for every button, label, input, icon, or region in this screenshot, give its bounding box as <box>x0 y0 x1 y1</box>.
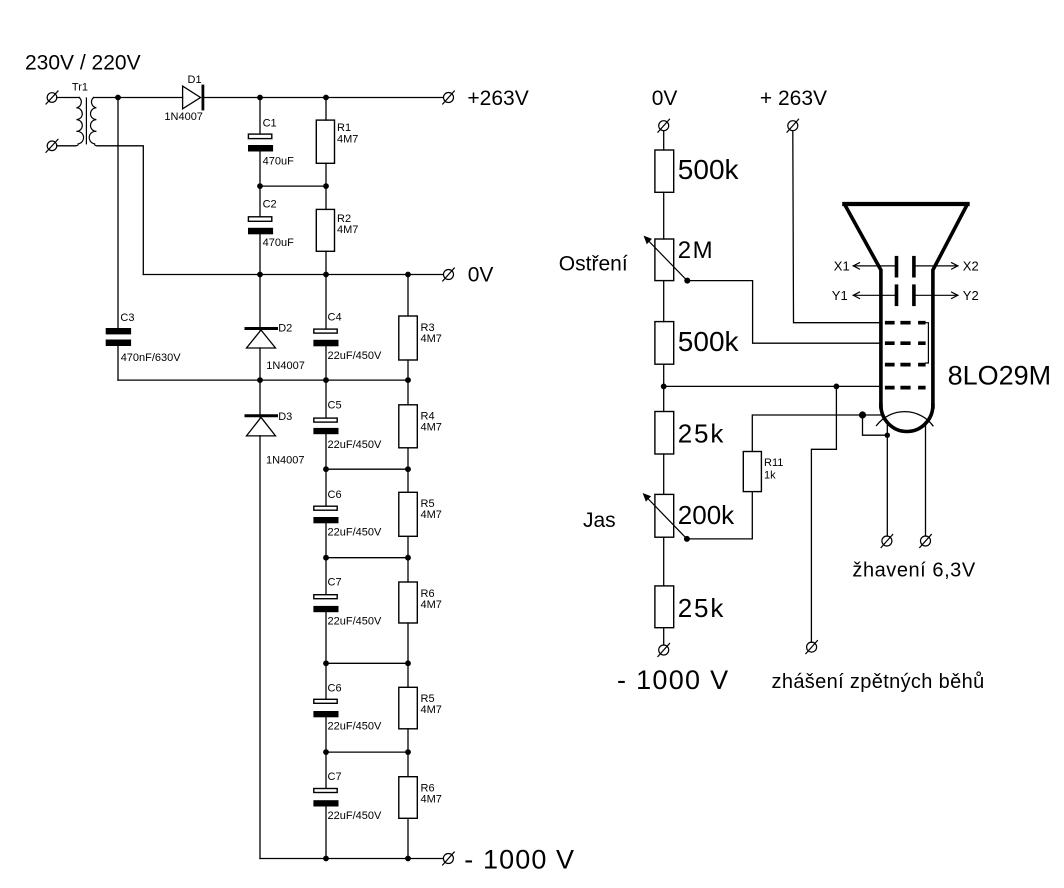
capacitor C2 470uF <box>248 198 294 274</box>
svg-text:22uF/450V: 22uF/450V <box>328 439 382 451</box>
wire: anode bracket rows 1-3 <box>926 323 929 363</box>
diode D3 1N4007 <box>246 380 305 466</box>
wire: D3 to -1000V rail <box>259 436 261 859</box>
svg-text:470nF/630V: 470nF/630V <box>121 352 182 364</box>
node: R5b/R6b junction <box>405 749 411 755</box>
wire: heater left leg <box>886 422 888 536</box>
CRT grid row 2 (focus) <box>885 341 926 345</box>
svg-text:4M7: 4M7 <box>421 509 442 521</box>
svg-text:22uF/450V: 22uF/450V <box>328 616 382 628</box>
wire: C1/C2 to R1/R2 link <box>260 185 326 187</box>
svg-text:0V: 0V <box>468 263 494 286</box>
node: D2/D3 junction <box>257 377 263 383</box>
resistor 25k (upper) <box>655 412 725 495</box>
node: C1 top <box>257 95 263 101</box>
svg-text:X2: X2 <box>963 259 979 274</box>
resistor R6 (second) 4M7 <box>399 752 442 858</box>
svg-text:25k: 25k <box>678 593 725 623</box>
resistor R1 4M7 <box>316 98 358 210</box>
node: cathode junction <box>859 411 866 418</box>
resistor 25k (lower) <box>655 586 725 645</box>
resistor 500k (second) <box>655 322 740 412</box>
svg-text:22uF/450V: 22uF/450V <box>328 350 382 362</box>
terminal: -1000V left <box>443 852 455 865</box>
node: R2 bottom on 0V <box>323 272 329 278</box>
terminal: 0V right <box>658 119 670 132</box>
wire: blanking tap to terminal <box>811 386 836 642</box>
svg-text:0V: 0V <box>652 87 678 110</box>
svg-text:22uF/450V: 22uF/450V <box>328 721 382 733</box>
svg-text:- 1000 V: - 1000 V <box>617 665 729 695</box>
svg-text:Y2: Y2 <box>963 288 979 303</box>
svg-text:200k: 200k <box>678 500 735 530</box>
node: C6/C7 junction <box>323 555 329 561</box>
svg-text:C1: C1 <box>263 118 277 130</box>
terminal: mains top <box>46 91 58 104</box>
svg-text:R1: R1 <box>337 122 351 134</box>
capacitor C7 22uF/450V <box>313 558 382 664</box>
resistor R11 1k <box>743 452 783 492</box>
svg-text:Tr1: Tr1 <box>72 82 88 94</box>
svg-text:C5: C5 <box>328 400 342 412</box>
capacitor C7 (second) 22uF/450V <box>313 752 382 858</box>
svg-text:8LO29M: 8LO29M <box>948 360 1052 390</box>
CRT grid row 4 (control grid) <box>885 386 926 390</box>
diode D2 1N4007 <box>246 275 305 381</box>
svg-text:C3: C3 <box>120 312 134 324</box>
wire: node to C3 top <box>117 98 119 329</box>
node: C6b/C7b junction <box>323 749 329 755</box>
svg-text:+263V: +263V <box>467 87 528 110</box>
wire: R11 bottom to Jas wiper <box>687 492 752 539</box>
terminal: +263V left <box>443 91 455 104</box>
node: R3/R4 junction <box>405 377 411 383</box>
svg-text:22uF/450V: 22uF/450V <box>328 810 382 822</box>
svg-text:C6: C6 <box>328 489 342 501</box>
wire: 2M bottom to 500k#2 <box>663 281 665 322</box>
svg-text:230V / 220V: 230V / 220V <box>25 52 141 75</box>
svg-text:Y1: Y1 <box>832 288 848 303</box>
CRT X deflection plates <box>834 258 979 276</box>
node: C5/C6 junction <box>323 466 329 472</box>
terminal: +263V right <box>787 119 799 132</box>
node: C7/C6b junction <box>323 660 329 666</box>
capacitor C6 (second) 22uF/450V <box>313 663 382 752</box>
diode D1 1N4007 <box>164 74 203 123</box>
node: link left <box>257 183 263 189</box>
node: R5/R6 junction <box>405 555 411 561</box>
svg-text:C7: C7 <box>328 577 342 589</box>
CRT grid row 3 <box>885 363 926 367</box>
svg-text:D1: D1 <box>188 74 202 86</box>
svg-text:4M7: 4M7 <box>337 224 358 236</box>
svg-text:C4: C4 <box>328 312 342 324</box>
resistor R2 4M7 <box>316 209 358 274</box>
potentiometer 200k Jas <box>643 493 736 542</box>
svg-text:1k: 1k <box>764 470 776 482</box>
capacitor C6 22uF/450V <box>313 469 382 558</box>
resistor R3 4M7 <box>399 275 442 381</box>
svg-text:C2: C2 <box>263 198 277 210</box>
capacitor C3 <box>106 312 182 364</box>
svg-text:1N4007: 1N4007 <box>164 111 203 123</box>
svg-text:+ 263V: + 263V <box>760 87 827 110</box>
svg-text:- 1000 V: - 1000 V <box>464 845 575 875</box>
wire: secondary bottom to 0V rail <box>97 146 143 275</box>
svg-text:500k: 500k <box>678 326 740 357</box>
wire: junction rail y752 <box>326 751 408 753</box>
transformer Tr1 <box>72 82 97 146</box>
svg-text:4M7: 4M7 <box>421 333 442 345</box>
wire: mains top terminal to primary <box>57 97 79 99</box>
svg-text:Jas: Jas <box>583 509 616 532</box>
node: C2 bottom on 0V <box>257 272 263 278</box>
node: blanking tap <box>834 384 840 390</box>
node: R1 top <box>323 95 329 101</box>
node: secondary top / C3 tap <box>115 95 121 101</box>
svg-text:Ostření: Ostření <box>559 253 628 276</box>
svg-text:4M7: 4M7 <box>421 704 442 716</box>
wire: -1000V rail <box>260 858 443 860</box>
terminal: heater right <box>920 535 932 548</box>
resistor R5 (second) 4M7 <box>399 663 442 752</box>
resistor 500k (top) <box>655 150 740 239</box>
node: R4/R5 junction <box>405 466 411 472</box>
terminal: -1000V right <box>658 644 670 657</box>
resistor R5 4M7 <box>399 469 442 558</box>
wire: heater right leg <box>925 422 927 536</box>
wire: +263V to anode row1 <box>793 131 881 323</box>
node: R6/R5b junction <box>405 660 411 666</box>
svg-text:2M: 2M <box>678 237 714 264</box>
svg-text:1N4007: 1N4007 <box>266 360 305 372</box>
svg-text:4M7: 4M7 <box>337 133 358 145</box>
svg-text:R2: R2 <box>337 213 351 225</box>
wire: secondary top to D1 anode <box>94 97 183 99</box>
capacitor C5 22uF/450V <box>313 380 382 469</box>
node: R chain on -1000V <box>405 856 411 862</box>
wire: junction rail y663 <box>326 662 408 664</box>
wire: 0V rail <box>143 274 443 276</box>
svg-text:1N4007: 1N4007 <box>266 454 305 466</box>
svg-text:4M7: 4M7 <box>421 794 442 806</box>
svg-text:žhavení 6,3V: žhavení 6,3V <box>852 560 975 582</box>
svg-text:470uF: 470uF <box>263 237 294 249</box>
potentiometer 2M Ostreni <box>644 236 715 284</box>
capacitor C4 22uF/450V <box>313 275 382 381</box>
svg-text:R11: R11 <box>764 457 783 469</box>
svg-text:4M7: 4M7 <box>421 599 442 611</box>
wire: D1 cathode to +263V terminal <box>204 97 443 99</box>
node: heater pin junction <box>885 433 890 438</box>
terminal: heater left <box>881 535 893 548</box>
node: R3 top on 0V <box>405 272 411 278</box>
node: cap chain on -1000V <box>323 856 329 862</box>
wire: junction rail y469 <box>326 468 408 470</box>
capacitor C1 470uF <box>248 98 294 217</box>
wire: grid row4 rail <box>664 385 881 387</box>
svg-text:C7: C7 <box>328 771 342 783</box>
svg-text:4M7: 4M7 <box>421 422 442 434</box>
resistor R6 4M7 <box>399 558 442 664</box>
terminal: 0V left <box>443 268 455 281</box>
wire: cathode to heater pin <box>863 415 888 435</box>
svg-text:D3: D3 <box>278 411 292 423</box>
CRT cathode/heater dome <box>877 412 934 426</box>
wire: R11 top to cathode <box>752 415 881 452</box>
resistor R4 4M7 <box>399 380 442 469</box>
svg-text:22uF/450V: 22uF/450V <box>328 526 382 538</box>
svg-text:25k: 25k <box>678 419 725 449</box>
CRT Y deflection plates <box>832 286 979 304</box>
wire: mains bottom terminal to primary <box>57 145 76 147</box>
svg-text:X1: X1 <box>834 259 850 274</box>
wire: junction rail y380 <box>118 379 408 381</box>
svg-text:zhášení zpětných běhů: zhášení zpětných běhů <box>772 671 985 693</box>
wire: junction rail y558 <box>326 557 408 559</box>
CRT 8LO29M envelope <box>844 204 967 432</box>
terminal: mains bottom <box>46 139 58 152</box>
node: C4/C5 junction <box>323 377 329 383</box>
CRT grid row 1 (anode) <box>885 321 926 325</box>
terminal: blanking <box>806 641 818 654</box>
wire: C3 bottom to junction rail <box>117 346 119 380</box>
svg-text:C6: C6 <box>328 682 342 694</box>
wire: 2M wiper to focus grid row2 <box>687 281 881 344</box>
svg-text:D2: D2 <box>278 323 292 335</box>
svg-text:500k: 500k <box>678 154 740 185</box>
wire: 0V terminal to 500k <box>663 131 665 150</box>
node: link right <box>323 183 329 189</box>
svg-text:470uF: 470uF <box>263 156 294 168</box>
node: divider tap to grid <box>661 384 667 390</box>
wire: 200k bottom to 25k#2 <box>663 537 665 586</box>
